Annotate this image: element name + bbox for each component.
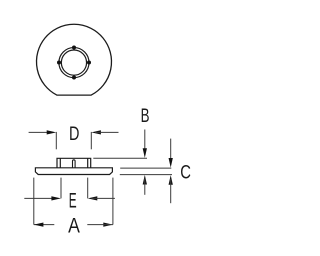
dim D line left: [29, 131, 53, 133]
dim A arrow left: [34, 222, 44, 226]
dim E arrow left: [51, 196, 61, 200]
dim A line left: [34, 224, 55, 226]
dim E ext left: [60, 178, 62, 199]
dim E arrow right: [88, 196, 98, 200]
side view boss outline: [57, 158, 91, 168]
dim D arrow right: [91, 130, 101, 134]
dim B line bottom: [144, 179, 146, 195]
dim C arrow top: [169, 158, 173, 168]
dim A ext left: [33, 178, 35, 225]
nib south: [72, 76, 76, 80]
boss inner line left: [59, 158, 61, 167]
dim D ext left: [55, 132, 57, 149]
dim A line right: [87, 224, 113, 226]
svg-text:B: B: [141, 106, 150, 127]
dim A arrow right: [103, 222, 113, 226]
dim E ext right: [87, 178, 89, 199]
svg-text:E: E: [69, 187, 77, 212]
dim D line right: [95, 131, 119, 133]
dim A ext right: [112, 178, 114, 225]
top view collar inner circle: [61, 50, 86, 75]
svg-text:D: D: [69, 123, 79, 144]
flange bottom extension line: [120, 174, 172, 176]
boss top extension line: [93, 157, 147, 159]
dim C line bottom: [170, 179, 172, 203]
top view outer flange (truncated circle): [36, 24, 111, 95]
dim B arrow bottom: [143, 175, 147, 185]
dim E line left: [24, 197, 57, 199]
dim B arrow top: [143, 148, 147, 158]
flange top extension line: [120, 167, 171, 169]
top view collar outer circle: [59, 48, 89, 78]
dim C line top: [170, 139, 172, 164]
dim D ext right: [90, 132, 92, 149]
dim D arrow left: [47, 130, 57, 134]
nib west: [57, 61, 61, 65]
svg-text:A: A: [68, 214, 81, 238]
nib east: [87, 61, 91, 65]
dim C arrow bottom: [169, 175, 173, 185]
nib north: [72, 46, 76, 50]
center slot on boss: [73, 160, 76, 168]
side view flange outline: [35, 168, 112, 175]
dim B line top: [144, 130, 146, 154]
boss inner line right: [87, 158, 89, 167]
svg-text:C: C: [180, 162, 191, 183]
dim E line right: [91, 197, 115, 199]
